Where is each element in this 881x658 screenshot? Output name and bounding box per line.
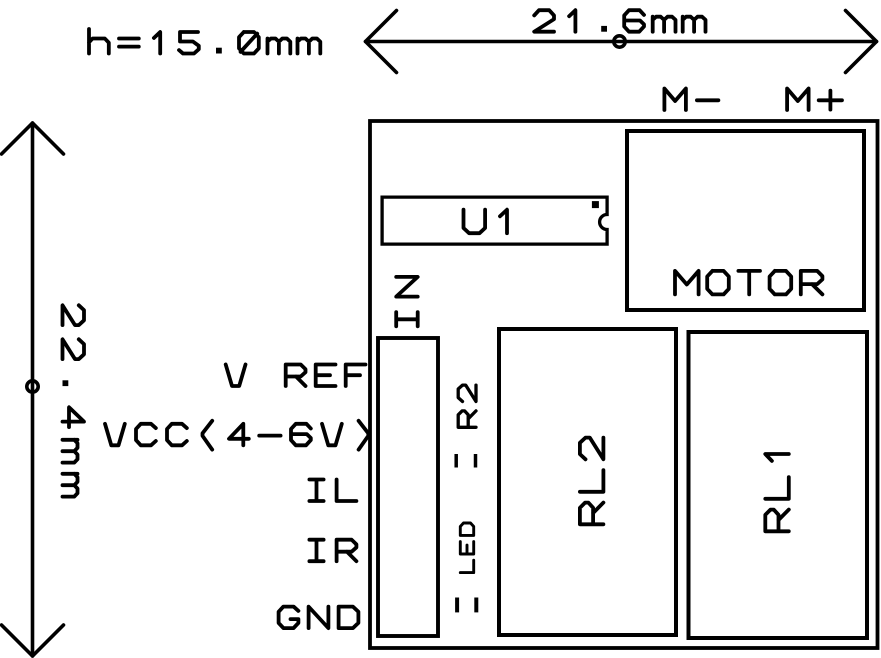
pin label VCC(4-6V) — [105, 421, 368, 450]
pin label V REF — [226, 365, 366, 387]
horizontal dimension line 21.6mm — [366, 11, 877, 73]
label MOTOR — [675, 271, 822, 295]
label RL2 — [580, 438, 604, 525]
label IN — [396, 277, 418, 326]
relay RL1 outline — [689, 332, 868, 638]
motor block MOTOR outline — [627, 131, 864, 310]
label R2 — [458, 385, 476, 427]
origin marker on vertical dimension — [27, 381, 38, 392]
LED pads — [457, 598, 476, 613]
origin marker on horizontal dimension — [614, 36, 625, 47]
relay RL2 outline — [499, 329, 676, 635]
U1 pin-1 dot — [592, 201, 599, 208]
dimension label 22.4mm — [63, 305, 85, 496]
IC U1 outline with pin-1 notch — [382, 197, 607, 244]
dimension label h=15.0mm — [89, 29, 320, 54]
label RL1 — [765, 454, 789, 531]
label U1 — [464, 210, 508, 234]
terminal label M+ — [787, 89, 842, 111]
vertical dimension line 22.4mm — [2, 123, 64, 656]
dimension label 21.6mm — [534, 10, 705, 32]
pin label IR — [309, 540, 356, 562]
board outline — [370, 121, 878, 648]
pin label GND — [279, 607, 359, 629]
connector IN outline — [378, 338, 438, 636]
terminal label M- — [664, 89, 718, 111]
pin label IL — [309, 480, 356, 502]
label LED — [460, 523, 473, 573]
resistor R2 pads — [456, 454, 475, 468]
